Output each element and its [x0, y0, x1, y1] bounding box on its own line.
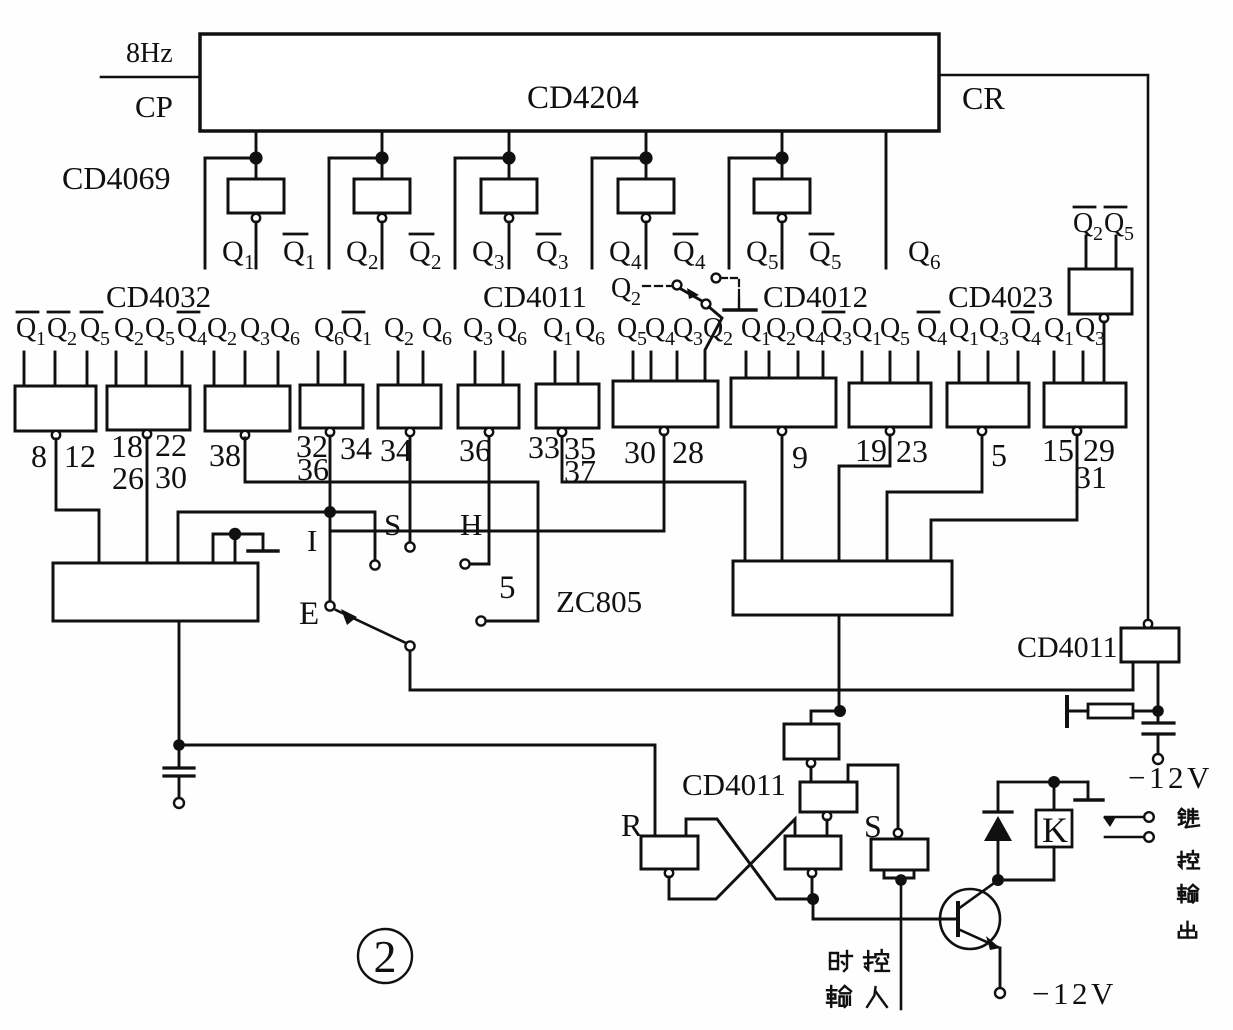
gate G9 output bubble [778, 427, 786, 435]
node Q2 input label [766, 313, 796, 350]
wire G4 out to node I [329, 436, 332, 513]
label CD4069 [62, 160, 170, 196]
switch arm contact [405, 641, 414, 650]
svg-text:2: 2 [1093, 223, 1103, 245]
svg-text:Q: Q [409, 235, 431, 268]
svg-text:Q: Q [222, 235, 244, 268]
node Q1 bar input label [16, 312, 46, 350]
inverter U2a output bubble [252, 214, 260, 222]
svg-text:3: 3 [693, 328, 703, 350]
gate G5 [378, 385, 441, 428]
svg-text:1: 1 [36, 328, 46, 350]
svg-text:2: 2 [368, 250, 379, 274]
switch SW1 contact b [702, 300, 711, 309]
wire K1 aux inputs [213, 534, 263, 563]
terminal C2 [1153, 754, 1163, 764]
label E [299, 596, 319, 632]
pin 26 [112, 460, 144, 496]
svg-text:Q: Q [979, 313, 999, 344]
svg-text:28: 28 [672, 434, 704, 470]
wire G7 out to K2 [562, 438, 745, 561]
label 8Hz [126, 38, 173, 69]
svg-text:Q: Q [741, 313, 761, 344]
capacitor C1 [164, 745, 194, 798]
node Q3 input label [1075, 313, 1105, 350]
text 控 (key2) [1178, 851, 1199, 869]
svg-text:4: 4 [1031, 328, 1041, 350]
inverter U4 CD4011 [1121, 628, 1179, 662]
wire R1 leads [1070, 710, 1152, 713]
gate A output bubble [807, 759, 815, 767]
gate G9 input wires [746, 352, 823, 378]
node Q5 junction [775, 151, 788, 164]
svg-text:34: 34 [380, 432, 412, 468]
wire Q4 drop from CD4204 [645, 131, 648, 179]
diode D1 [984, 782, 1012, 841]
gate G11 output bubble [978, 427, 986, 435]
svg-text:2: 2 [67, 328, 77, 350]
svg-text:Q: Q [80, 313, 100, 344]
node Q1 input label [1044, 313, 1074, 350]
svg-text:Q: Q [497, 313, 517, 344]
svg-text:19: 19 [855, 432, 887, 468]
node Q2 input label [703, 313, 733, 350]
node relay top junction [1048, 776, 1060, 788]
node Q5 bar input label [80, 312, 110, 350]
wire G9 out to K2 [781, 436, 784, 561]
svg-text:3: 3 [1095, 328, 1105, 350]
block K2 [733, 561, 952, 615]
node Q4 bar input label [177, 312, 207, 350]
gate G3 output bubble [241, 431, 249, 439]
wire G5 out (pin34) to S contact [409, 438, 412, 542]
gate G6 [458, 385, 519, 428]
svg-text:2: 2 [723, 328, 733, 350]
svg-text:CD4204: CD4204 [527, 80, 639, 116]
gate G12 [1044, 383, 1126, 427]
label Q6 [908, 235, 941, 274]
gate C output bubble [808, 869, 816, 877]
transistor Q1 collector [958, 881, 997, 909]
node latch out junction [807, 893, 819, 905]
label S (latch) [864, 808, 882, 844]
inverter U2d CD4069 [618, 179, 674, 213]
inverter U2a CD4069 [228, 179, 284, 213]
wire Q̄2 stub [1085, 236, 1088, 269]
wire relay K lead top [1053, 782, 1056, 810]
svg-text:3: 3 [260, 328, 270, 350]
svg-text:Q: Q [822, 313, 842, 344]
gate G7 output bubble [558, 428, 566, 436]
svg-text:−12V: −12V [1032, 976, 1117, 1011]
transistor Q1 [940, 889, 1000, 949]
svg-text:2: 2 [631, 288, 641, 310]
switch contact H [460, 559, 469, 568]
svg-text:30: 30 [624, 434, 656, 470]
label Q̄3 [536, 234, 569, 274]
wire U4 out left leg [1132, 662, 1135, 690]
wire S out to B input [848, 765, 898, 829]
svg-text:Q: Q [609, 235, 631, 268]
svg-text:5: 5 [768, 250, 779, 274]
label Q̄2 [409, 234, 442, 274]
svg-text:1: 1 [563, 328, 573, 350]
label Q2 [346, 235, 379, 274]
gate G9 [731, 378, 836, 427]
node Q6 input label [575, 313, 605, 350]
svg-text:5: 5 [991, 437, 1007, 473]
node Q5 input label [145, 313, 175, 350]
svg-text:38: 38 [209, 437, 241, 473]
svg-text:Q: Q [949, 313, 969, 344]
gate G1 input wires [24, 352, 87, 386]
wire U3 output [1103, 322, 1106, 383]
label CD4023 [948, 279, 1053, 314]
svg-text:E: E [299, 596, 319, 632]
pin 28 [672, 434, 704, 470]
label Q̄4 [673, 234, 706, 274]
svg-text:1: 1 [244, 250, 255, 274]
inverter U2e output bubble [778, 214, 786, 222]
label 5 (ZC805) [499, 570, 516, 606]
pin 30 [624, 434, 656, 470]
svg-text:CR: CR [962, 80, 1005, 116]
node Q1 input label [949, 313, 979, 350]
switch SW1 contact c [712, 274, 721, 283]
wire Q1 drop from CD4204 [255, 131, 258, 179]
pin 37 [564, 453, 596, 489]
wire Q4 tap [592, 157, 646, 160]
svg-text:5: 5 [831, 250, 842, 274]
wire G6 out (pin36) to H contact [470, 438, 489, 564]
svg-text:6: 6 [442, 328, 452, 350]
svg-text:6: 6 [517, 328, 527, 350]
transistor Q1 emitter [958, 929, 1000, 950]
ground (relay bus) [1075, 782, 1103, 800]
terminal contact b [1144, 832, 1154, 842]
wire Q6 output [885, 131, 888, 268]
svg-text:36: 36 [459, 432, 491, 468]
svg-text:Q: Q [145, 313, 165, 344]
wire Q4 output [591, 158, 594, 268]
svg-text:Q: Q [177, 313, 197, 344]
block K1 [53, 563, 258, 621]
wire Q̄3 output [508, 222, 511, 268]
switch SW1 dashed to ground [721, 278, 739, 298]
wire Q3 output [454, 158, 457, 268]
svg-text:Q: Q [795, 313, 815, 344]
gate G8 output bubble [660, 427, 668, 435]
node collector junction [992, 874, 1004, 886]
wire Q2 tap [329, 157, 382, 160]
node I junction [324, 506, 336, 518]
svg-text:3: 3 [842, 328, 852, 350]
wire long bus to CD4011d [410, 689, 1133, 692]
gate G1 output bubble [52, 431, 60, 439]
svg-text:Q: Q [342, 313, 362, 344]
pin 30 [155, 459, 187, 495]
node Q4 bar input label [917, 312, 947, 350]
svg-text:5: 5 [1124, 223, 1134, 245]
text 输 (out1) [1178, 885, 1198, 903]
node Q3 input label [240, 313, 270, 350]
svg-text:Q: Q [207, 313, 227, 344]
svg-text:−12V: −12V [1128, 760, 1213, 795]
node S input junction [895, 874, 907, 886]
inverter U2c output bubble [505, 214, 513, 222]
label S (ZC805) [384, 507, 401, 542]
node Q6 input label [270, 313, 300, 350]
pin 38 [209, 437, 241, 473]
gate G7 [536, 384, 599, 428]
node Q3 bar input label [822, 312, 852, 350]
svg-text:Q: Q [283, 235, 305, 268]
node Q5 input label [617, 313, 647, 350]
pin 34 [380, 432, 412, 468]
node Q2 input label [207, 313, 237, 350]
pin 9 [792, 439, 808, 475]
node Q3 input label [979, 313, 1009, 350]
inverter U2e CD4069 [754, 179, 810, 213]
svg-text:5: 5 [100, 328, 110, 350]
svg-text:34: 34 [340, 430, 372, 466]
svg-text:Q: Q [908, 235, 930, 268]
wire G11 out to K2 [887, 436, 982, 561]
svg-text:2: 2 [404, 328, 414, 350]
svg-text:8Hz: 8Hz [126, 38, 173, 69]
svg-text:Q: Q [880, 313, 900, 344]
svg-text:2: 2 [374, 931, 397, 982]
node Q5 input label [880, 313, 910, 350]
inverter U2d output bubble [642, 214, 650, 222]
svg-text:Q: Q [543, 313, 563, 344]
svg-text:Q: Q [673, 313, 693, 344]
wire Q̄5 output [781, 222, 784, 268]
svg-text:6: 6 [595, 328, 605, 350]
gate G5 input wires [398, 352, 423, 385]
switch SW1 contact a [673, 281, 682, 290]
label CD4204 [527, 80, 639, 116]
node Q1 input label [543, 313, 573, 350]
svg-text:Q: Q [346, 235, 368, 268]
svg-text:CD4069: CD4069 [62, 160, 170, 196]
wire E arm down [409, 651, 412, 690]
pin 34 [340, 430, 372, 466]
svg-text:1: 1 [362, 328, 372, 350]
pin 5 [991, 437, 1007, 473]
gate R output bubble [665, 869, 673, 877]
pin 18 [111, 428, 143, 464]
svg-text:22: 22 [155, 427, 187, 463]
svg-text:K: K [1042, 810, 1068, 850]
svg-text:S: S [384, 507, 401, 542]
label CR [962, 80, 1005, 116]
node R1 junction [1152, 705, 1164, 717]
svg-text:Q: Q [1073, 208, 1093, 239]
node Q3 input label [673, 313, 703, 350]
switch SW1 dashed lead [643, 285, 671, 287]
node Q1 bar input label [342, 312, 372, 350]
label CD4012 [763, 279, 868, 314]
node Q1 junction [249, 151, 262, 164]
svg-text:2: 2 [431, 250, 442, 274]
label CD4011 (right) [1017, 631, 1118, 664]
node C1 junction [173, 739, 185, 751]
label Q5 [746, 235, 779, 274]
gate G5 output bubble [406, 428, 414, 436]
svg-text:Q: Q [673, 235, 695, 268]
figure label 2 (circled) [358, 929, 412, 983]
svg-text:Q: Q [809, 235, 831, 268]
gate G7 input wires [555, 352, 578, 384]
gate S CD4011 [871, 839, 928, 870]
wire C out [811, 877, 814, 899]
svg-text:5: 5 [165, 328, 175, 350]
node Q4 input label [795, 313, 825, 350]
gate G10 input wires [862, 352, 918, 383]
wire A out to B [810, 767, 813, 782]
gate G8 [613, 381, 718, 427]
ground (switch SW1) [724, 298, 756, 310]
pin 32 [296, 428, 328, 464]
svg-text:Q: Q [1011, 313, 1031, 344]
wire Q̄5 stub [1115, 236, 1118, 269]
wire Q̄2 output [381, 222, 384, 268]
node Q1 input label [852, 313, 882, 350]
pin 35 [564, 430, 596, 466]
terminal C1 [174, 798, 184, 808]
node Q6 input label [497, 313, 527, 350]
svg-text:6: 6 [290, 328, 300, 350]
gate G10 output bubble [886, 427, 894, 435]
wire G3 out (pin38) to contact [245, 438, 538, 621]
svg-text:26: 26 [112, 460, 144, 496]
wire switch to gate G8 [705, 307, 722, 381]
svg-text:Q: Q [384, 313, 404, 344]
svg-text:2: 2 [134, 328, 144, 350]
wire CR [939, 75, 1148, 620]
svg-text:Q: Q [463, 313, 483, 344]
relay contact arm [1103, 817, 1144, 827]
svg-text:Q: Q [746, 235, 768, 268]
label -12V (emitter) [1032, 976, 1117, 1011]
gate G2 output bubble [143, 430, 151, 438]
svg-text:Q: Q [617, 313, 637, 344]
svg-text:4: 4 [197, 328, 207, 350]
svg-text:ZC805: ZC805 [556, 584, 642, 619]
relay contact fixed [1105, 836, 1143, 839]
label ZC805 [556, 584, 642, 619]
pin 29 [1083, 432, 1115, 468]
terminal emitter [995, 988, 1005, 998]
svg-text:1: 1 [305, 250, 316, 274]
node Q6 input label [314, 313, 344, 350]
svg-text:Q: Q [575, 313, 595, 344]
svg-text:R: R [621, 807, 643, 843]
gate G2 input wires [116, 352, 182, 386]
svg-text:15: 15 [1042, 432, 1074, 468]
node Q2 bar input label [47, 312, 77, 350]
wire collector to diode [997, 841, 1000, 880]
wire latch out to Q1 base [813, 899, 955, 919]
svg-text:1: 1 [1064, 328, 1074, 350]
text 输 (input1) [827, 986, 851, 1007]
svg-text:CD4032: CD4032 [106, 279, 211, 314]
text 键 (key) [1179, 809, 1199, 827]
gate S output bubble [894, 829, 902, 837]
gate G4 input wires [318, 352, 345, 385]
svg-text:Q: Q [611, 273, 631, 304]
pin 31 [1075, 459, 1107, 495]
gate G6 input wires [475, 352, 503, 385]
gate G3 input wires [214, 352, 278, 386]
wire Q5 output [728, 158, 731, 268]
svg-text:Q: Q [240, 313, 260, 344]
wire B out to C [826, 820, 829, 836]
svg-text:I: I [307, 523, 317, 558]
wire timing input [900, 880, 903, 1009]
switch contact (38) [476, 616, 485, 625]
wire Q2 output [328, 158, 331, 268]
svg-text:CD4012: CD4012 [763, 279, 868, 314]
wire Q1 tap [205, 157, 256, 160]
label Q̄1 [283, 234, 316, 274]
svg-text:37: 37 [564, 453, 596, 489]
svg-text:3: 3 [494, 250, 505, 274]
wire G2 out to K1 [146, 438, 149, 563]
svg-text:33: 33 [528, 429, 560, 465]
gate A CD4011 [784, 724, 839, 759]
svg-text:Q: Q [270, 313, 290, 344]
svg-text:S: S [864, 808, 882, 844]
inverter U4 input bubble [1144, 620, 1152, 628]
wire CP input 8Hz [101, 76, 200, 79]
pin 8 [31, 438, 47, 474]
wire C out cross to R input [686, 819, 813, 899]
gate B CD4011 [800, 782, 857, 812]
node Q2 junction [375, 151, 388, 164]
svg-text:30: 30 [155, 459, 187, 495]
gate G10 [849, 383, 931, 427]
wire U4 out right leg [1157, 662, 1160, 708]
svg-text:Q: Q [314, 313, 334, 344]
pin 22 [155, 427, 187, 463]
node K1 aux junction [229, 528, 241, 540]
svg-text:CD4011: CD4011 [682, 767, 786, 802]
wire G1 out to K1 [56, 439, 99, 563]
wire S gate inputs tied [884, 870, 914, 878]
svg-text:5: 5 [499, 570, 516, 606]
gate G11 input wires [959, 352, 1018, 383]
pin 36 [459, 432, 491, 468]
pin 33 [528, 429, 560, 465]
wire node I down to E [329, 512, 332, 601]
label H [460, 507, 482, 542]
svg-text:Q: Q [16, 313, 36, 344]
wire Q2 drop from CD4204 [381, 131, 384, 179]
node Q1 input label [741, 313, 771, 350]
label Q̄2 (top right) [1073, 207, 1103, 245]
node Q4 junction [639, 151, 652, 164]
node Q3 junction [502, 151, 515, 164]
svg-text:H: H [460, 507, 482, 542]
node Q4 input label [645, 313, 675, 350]
gate B output bubble [823, 812, 831, 820]
gate G2 [107, 386, 190, 430]
node Q4 bar input label [1011, 312, 1041, 350]
svg-text:Q: Q [766, 313, 786, 344]
gate U3 CD4023 [1069, 269, 1132, 314]
